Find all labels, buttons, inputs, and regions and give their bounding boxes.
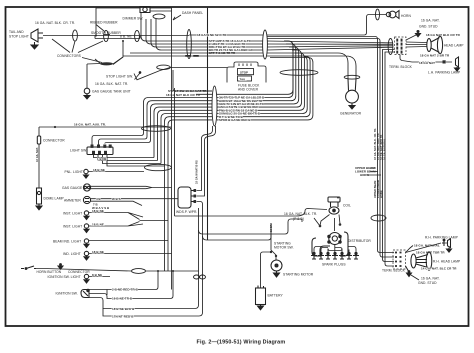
generator grommet bbox=[344, 75, 360, 79]
svg-text:CONNECTOR: CONNECTOR bbox=[68, 270, 90, 274]
parking lamp RH bbox=[442, 239, 452, 252]
wire horn button main bbox=[36, 269, 199, 272]
connector grommet 3 bbox=[135, 30, 140, 41]
right bundle top stubs bbox=[383, 50, 395, 58]
svg-text:18 B NE: 18 B NE bbox=[92, 209, 104, 213]
grommet right bundle bbox=[371, 215, 386, 221]
wire row A4 to term block bbox=[161, 47, 393, 50]
svg-text:STOP LIGHT SW.: STOP LIGHT SW. bbox=[106, 75, 133, 79]
gnd stud wire top bbox=[406, 35, 417, 41]
svg-text:TERM. BLOCK: TERM. BLOCK bbox=[382, 269, 406, 273]
bundle B row labels bbox=[219, 96, 265, 122]
ground tail lamp bbox=[31, 42, 38, 49]
svg-text:GENERATOR: GENERATOR bbox=[340, 112, 362, 116]
wire harness row B2 light sw bbox=[99, 44, 296, 145]
svg-text:HORN BUTTON: HORN BUTTON bbox=[37, 270, 62, 274]
ignition wire rows bbox=[89, 271, 199, 316]
fuse TAIL box bbox=[238, 76, 252, 81]
ignition switch bbox=[81, 289, 89, 297]
junction dot dome bbox=[54, 126, 56, 128]
wire harness row B6 bbox=[161, 56, 307, 164]
svg-text:2 B NE RED TR B: 2 B NE RED TR B bbox=[112, 288, 139, 292]
wire stop light to fuse bbox=[160, 67, 227, 71]
wire stop light sw riser bbox=[95, 41, 123, 65]
svg-text:16 GA. BLK. NAT. TR.: 16 GA. BLK. NAT. TR. bbox=[95, 82, 128, 86]
wire bundle A rows bbox=[146, 41, 393, 50]
wire inst light 2 bbox=[89, 222, 128, 226]
wire dimmer feed bbox=[96, 8, 140, 36]
wire dimmer down legs bbox=[141, 13, 161, 51]
connector dark ellipse on diagonal bbox=[100, 62, 113, 65]
svg-text:HORN: HORN bbox=[401, 14, 411, 18]
svg-text:IGNITION SW.: IGNITION SW. bbox=[56, 292, 78, 296]
generator drop wires bbox=[123, 53, 356, 79]
generator body bbox=[346, 79, 359, 109]
ignition sw light bbox=[84, 274, 89, 283]
light switch fan wires bbox=[94, 155, 165, 167]
ammeter wire labels bbox=[92, 197, 121, 210]
spark plug wires bbox=[314, 245, 356, 254]
svg-text:R.H. HEAD LAMP: R.H. HEAD LAMP bbox=[433, 260, 461, 264]
gnd wire bottom term bbox=[406, 266, 412, 277]
svg-text:STOP: STOP bbox=[240, 71, 248, 75]
fuse cover dashes bbox=[239, 64, 251, 67]
wire mid run to coil bbox=[175, 211, 306, 216]
horn bbox=[386, 11, 399, 19]
term block pins bbox=[396, 39, 402, 54]
grommet center bundle lower bbox=[145, 164, 172, 170]
svg-text:Fig. 2—(1950-51) Wiring Diagra: Fig. 2—(1950-51) Wiring Diagram bbox=[197, 340, 286, 346]
svg-text:GAS GAUGE: GAS GAUGE bbox=[62, 186, 83, 190]
label 16 GA NAT BLK TR P D bbox=[284, 212, 320, 226]
svg-text:18 GA NAT 2 BR TR: 18 GA NAT 2 BR TR bbox=[420, 54, 450, 58]
wire stop light sw row bbox=[173, 70, 212, 91]
svg-text:BEAM IND. LIGHT: BEAM IND. LIGHT bbox=[53, 240, 81, 244]
wire harness row B4 bbox=[154, 50, 302, 158]
grommet dimmer bbox=[153, 14, 165, 19]
wires term to head lamp bbox=[406, 42, 427, 47]
grommet center bundle dome row bbox=[142, 126, 171, 132]
wire bundle B rows with risers bbox=[92, 41, 313, 271]
wire coil connections bbox=[305, 209, 340, 232]
dome lamp circuit wire bbox=[39, 127, 171, 188]
ammeter fan diagonals bbox=[128, 213, 168, 227]
junction dots coil bbox=[319, 197, 342, 228]
upper cross runs to right bundle bbox=[267, 37, 380, 61]
wire stop-lamp row riser bbox=[217, 41, 293, 94]
wire dimmer out right bbox=[150, 8, 172, 11]
label RIBBED RUBBER bbox=[90, 21, 118, 32]
ammeter bbox=[83, 196, 90, 203]
wire pnl light bbox=[88, 171, 144, 173]
svg-text:18 B NE: 18 B NE bbox=[93, 168, 105, 172]
svg-text:STOP LIGHT: STOP LIGHT bbox=[9, 35, 29, 39]
label FUSE BLOCK AND COVER bbox=[238, 84, 260, 92]
label DASH PANEL bbox=[173, 11, 203, 20]
fuse STOP box bbox=[238, 69, 254, 75]
label 16 GA. NAT. GND. STUD bbox=[419, 19, 440, 29]
wire ind light bbox=[89, 250, 172, 254]
wire harness row B5 bbox=[158, 53, 305, 161]
svg-text:8 B NE: 8 B NE bbox=[92, 273, 102, 277]
svg-text:IND. LIGHT: IND. LIGHT bbox=[63, 252, 81, 256]
wire tail light lower bbox=[95, 36, 140, 39]
term block bottom dashed bbox=[393, 250, 406, 269]
svg-text:MOTOR SW.: MOTOR SW. bbox=[274, 246, 294, 250]
gnd stud symbol top right bbox=[416, 31, 421, 37]
rotated wire labels right bundle bbox=[374, 128, 387, 160]
svg-text:TAIL AND: TAIL AND bbox=[9, 30, 24, 34]
svg-text:GND. STUD: GND. STUD bbox=[419, 25, 438, 29]
svg-text:16 GA. NAT. BLK. TR.: 16 GA. NAT. BLK. TR. bbox=[284, 212, 317, 216]
dash panel line bbox=[207, 8, 209, 240]
svg-text:18 B NE BLK B: 18 B NE BLK B bbox=[112, 307, 135, 311]
connector ellipse right of labels bbox=[263, 30, 268, 59]
ground horn button bbox=[58, 264, 63, 270]
svg-text:DOME LAMP: DOME LAMP bbox=[44, 197, 65, 201]
pnl light bbox=[84, 169, 89, 178]
wire dash panel stub bbox=[171, 11, 173, 56]
starting motor bbox=[271, 260, 282, 277]
svg-text:16 GA. NAT. AUX. TR.: 16 GA. NAT. AUX. TR. bbox=[74, 123, 106, 127]
svg-text:COIL: COIL bbox=[343, 204, 351, 208]
labels upper beam lower beam horn bbox=[355, 166, 381, 177]
gas gauge inst bbox=[83, 184, 90, 191]
svg-text:BATTERY: BATTERY bbox=[268, 294, 284, 298]
spark plugs bbox=[311, 252, 359, 259]
svg-text:14 GA. NAT. BLC CR TR: 14 GA. NAT. BLC CR TR bbox=[421, 267, 457, 271]
wire to parking from term bottom bbox=[400, 55, 412, 63]
wire harness row B1 light sw bbox=[92, 41, 293, 145]
svg-text:16 GA. NAT.: 16 GA. NAT. bbox=[421, 277, 440, 281]
svg-text:HORN: HORN bbox=[380, 190, 383, 198]
connector square parking bbox=[443, 60, 446, 63]
svg-text:16 GA. NAT.: 16 GA. NAT. bbox=[421, 19, 440, 23]
gas gauge tank unit bbox=[84, 88, 90, 99]
svg-text:WDS.P. WPR.: WDS.P. WPR. bbox=[176, 210, 197, 214]
svg-text:INST. LIGHT: INST. LIGHT bbox=[63, 225, 82, 229]
connector grommet 2 bbox=[104, 30, 109, 41]
label 16 GA NAT GND STUD bottom bbox=[411, 275, 440, 285]
connector ellipse ign bbox=[132, 269, 146, 274]
gas gauge tank unit riser bbox=[87, 57, 123, 88]
stop lt sw wire labels bbox=[166, 89, 207, 97]
wiper switch bbox=[178, 187, 196, 208]
wire battery feed bbox=[261, 252, 272, 288]
head lamp LH bbox=[427, 36, 443, 54]
parking lamp LH bbox=[455, 57, 460, 71]
battery bbox=[256, 286, 266, 310]
connector ellipse left of labels bbox=[187, 30, 192, 59]
svg-text:IGNITION SW. LIGHT: IGNITION SW. LIGHT bbox=[48, 275, 81, 279]
svg-text:16 B NE TR B: 16 B NE TR B bbox=[112, 297, 133, 301]
wire ign sw light bbox=[89, 273, 110, 277]
svg-text:18 GA NAT BLK CR TR: 18 GA NAT BLK CR TR bbox=[426, 33, 461, 37]
ind light bbox=[84, 251, 89, 260]
term block bottom pins bbox=[395, 252, 402, 267]
svg-text:1 B NE: 1 B NE bbox=[97, 157, 107, 161]
inst light 1 bbox=[84, 211, 89, 220]
horn grommet bbox=[376, 9, 380, 20]
svg-text:LIGHT SW.: LIGHT SW. bbox=[70, 149, 87, 153]
wire harness row B3 light sw bbox=[105, 47, 299, 144]
fuse block outline bbox=[227, 62, 266, 83]
wire bundle A row1 horn feed bbox=[189, 15, 386, 36]
svg-text:W B S: W B S bbox=[112, 197, 121, 201]
svg-text:SPARK PLUGS: SPARK PLUGS bbox=[322, 263, 346, 267]
svg-text:16 GA. NAT.: 16 GA. NAT. bbox=[36, 147, 39, 162]
center vertical bundle extras bbox=[172, 56, 175, 290]
svg-text:L.H. PARKING LAMP: L.H. PARKING LAMP bbox=[428, 71, 461, 75]
wire row A2 to term block bbox=[151, 43, 393, 45]
bundle A row labels bbox=[209, 39, 254, 55]
svg-text:18 GA W NE S2 D TR: 18 GA W NE S2 D TR bbox=[197, 33, 227, 37]
dome lamp bbox=[36, 188, 42, 210]
connector grommet 1 bbox=[73, 30, 78, 41]
svg-text:4 B: 4 B bbox=[96, 197, 101, 201]
svg-text:SPKR B GA NE RED B: SPKR B GA NE RED B bbox=[219, 118, 250, 122]
wire to parking lamp bbox=[412, 61, 452, 63]
wire beam ind bbox=[89, 240, 168, 242]
inst light 2 bbox=[84, 224, 89, 233]
svg-text:RIBBED RUBBER: RIBBED RUBBER bbox=[90, 21, 118, 25]
svg-text:INST. LIGHT: INST. LIGHT bbox=[63, 212, 82, 216]
grommet stop light wire bbox=[157, 65, 171, 69]
connector dashes on row6 bbox=[185, 55, 191, 57]
svg-text:GND. STUD: GND. STUD bbox=[418, 281, 437, 285]
light switch body bbox=[87, 147, 113, 155]
svg-text:STARTING MOTOR: STARTING MOTOR bbox=[283, 273, 314, 277]
svg-text:R.H. PARKING LAMP: R.H. PARKING LAMP bbox=[425, 236, 459, 240]
svg-text:HEAD LAMP: HEAD LAMP bbox=[444, 44, 464, 48]
tail and stop light lamp bbox=[31, 29, 43, 42]
ignition row labels bbox=[112, 288, 139, 319]
term block grommet bbox=[388, 39, 393, 55]
connectors label and arrows bbox=[52, 39, 103, 63]
grommet riser bundle bbox=[280, 70, 318, 76]
svg-text:16 GA. NAT. BLK. CR. TR.: 16 GA. NAT. BLK. CR. TR. bbox=[35, 21, 75, 25]
connector ellipse bundle B bbox=[212, 86, 217, 126]
horn button switch bbox=[21, 266, 36, 269]
svg-text:TERM. BLOCK: TERM. BLOCK bbox=[389, 65, 413, 69]
svg-text:AND COVER: AND COVER bbox=[238, 88, 259, 92]
junction starting sw bbox=[270, 251, 277, 257]
junction dots bbox=[95, 35, 174, 273]
wire tail light main bbox=[43, 35, 189, 37]
wire inst light 1 bbox=[89, 209, 128, 213]
label 18 GA NATURAL bbox=[406, 244, 440, 253]
wire harness row B8 bbox=[168, 58, 313, 272]
term block top dashed bbox=[395, 37, 407, 55]
wire parking RH drop bbox=[406, 243, 448, 253]
wire harness row B7 bbox=[165, 56, 311, 271]
coil bbox=[328, 197, 340, 214]
svg-text:18 B NE: 18 B NE bbox=[92, 250, 104, 254]
svg-text:CONNECTORS: CONNECTORS bbox=[57, 54, 82, 58]
wire row A3 to term block bbox=[156, 46, 393, 47]
svg-text:16 GA: 16 GA bbox=[270, 224, 273, 232]
svg-text:18 GA NAT: 18 GA NAT bbox=[419, 61, 435, 65]
light switch pins bbox=[91, 145, 112, 155]
right bundle verticals bbox=[378, 56, 395, 266]
beam ind light bbox=[84, 239, 89, 248]
label SMOOTH RUBBER bbox=[91, 31, 121, 35]
svg-text:16 GA. NATURAL: 16 GA. NATURAL bbox=[384, 138, 387, 160]
svg-text:17N NT RED B: 17N NT RED B bbox=[112, 315, 134, 319]
connector dome bbox=[37, 136, 40, 144]
svg-text:DISTRIBUTOR: DISTRIBUTOR bbox=[348, 239, 371, 243]
svg-text:AMMETER: AMMETER bbox=[64, 199, 81, 203]
wiper pair verticals bbox=[197, 126, 213, 191]
svg-text:8 B. NE: 8 B. NE bbox=[120, 35, 132, 39]
svg-text:DASH PANEL: DASH PANEL bbox=[182, 11, 203, 15]
svg-text:GAS GAUGE TANK UNIT: GAS GAUGE TANK UNIT bbox=[92, 90, 131, 94]
svg-text:DIMMER SW.: DIMMER SW. bbox=[123, 17, 144, 21]
stop light switch bbox=[134, 71, 160, 80]
rotated labels lower right bundle bbox=[374, 180, 383, 198]
wire nested pair to start sw bbox=[199, 219, 303, 240]
dimmer switch bbox=[140, 7, 150, 13]
wire row A1 to term block bbox=[146, 41, 393, 43]
distributor body bbox=[312, 232, 348, 256]
svg-text:CONNECTOR: CONNECTOR bbox=[43, 139, 65, 143]
ammeter wires right bbox=[91, 199, 178, 206]
svg-text:18 B NE: 18 B NE bbox=[92, 222, 104, 226]
svg-text:TAIL: TAIL bbox=[240, 77, 247, 81]
label STARTING MOTOR SW bbox=[274, 242, 294, 250]
svg-text:18 GA W NAT B RS: 18 GA W NAT B RS bbox=[196, 160, 199, 184]
starting motor switch wires bbox=[271, 219, 302, 260]
wires stp lt sw labels to connector bbox=[196, 91, 212, 94]
svg-text:PNL. LIGHT: PNL. LIGHT bbox=[65, 170, 83, 174]
head lamp RH bbox=[411, 252, 432, 270]
wiper pair connector bbox=[194, 275, 206, 279]
wire gas gauge right bbox=[91, 186, 172, 188]
